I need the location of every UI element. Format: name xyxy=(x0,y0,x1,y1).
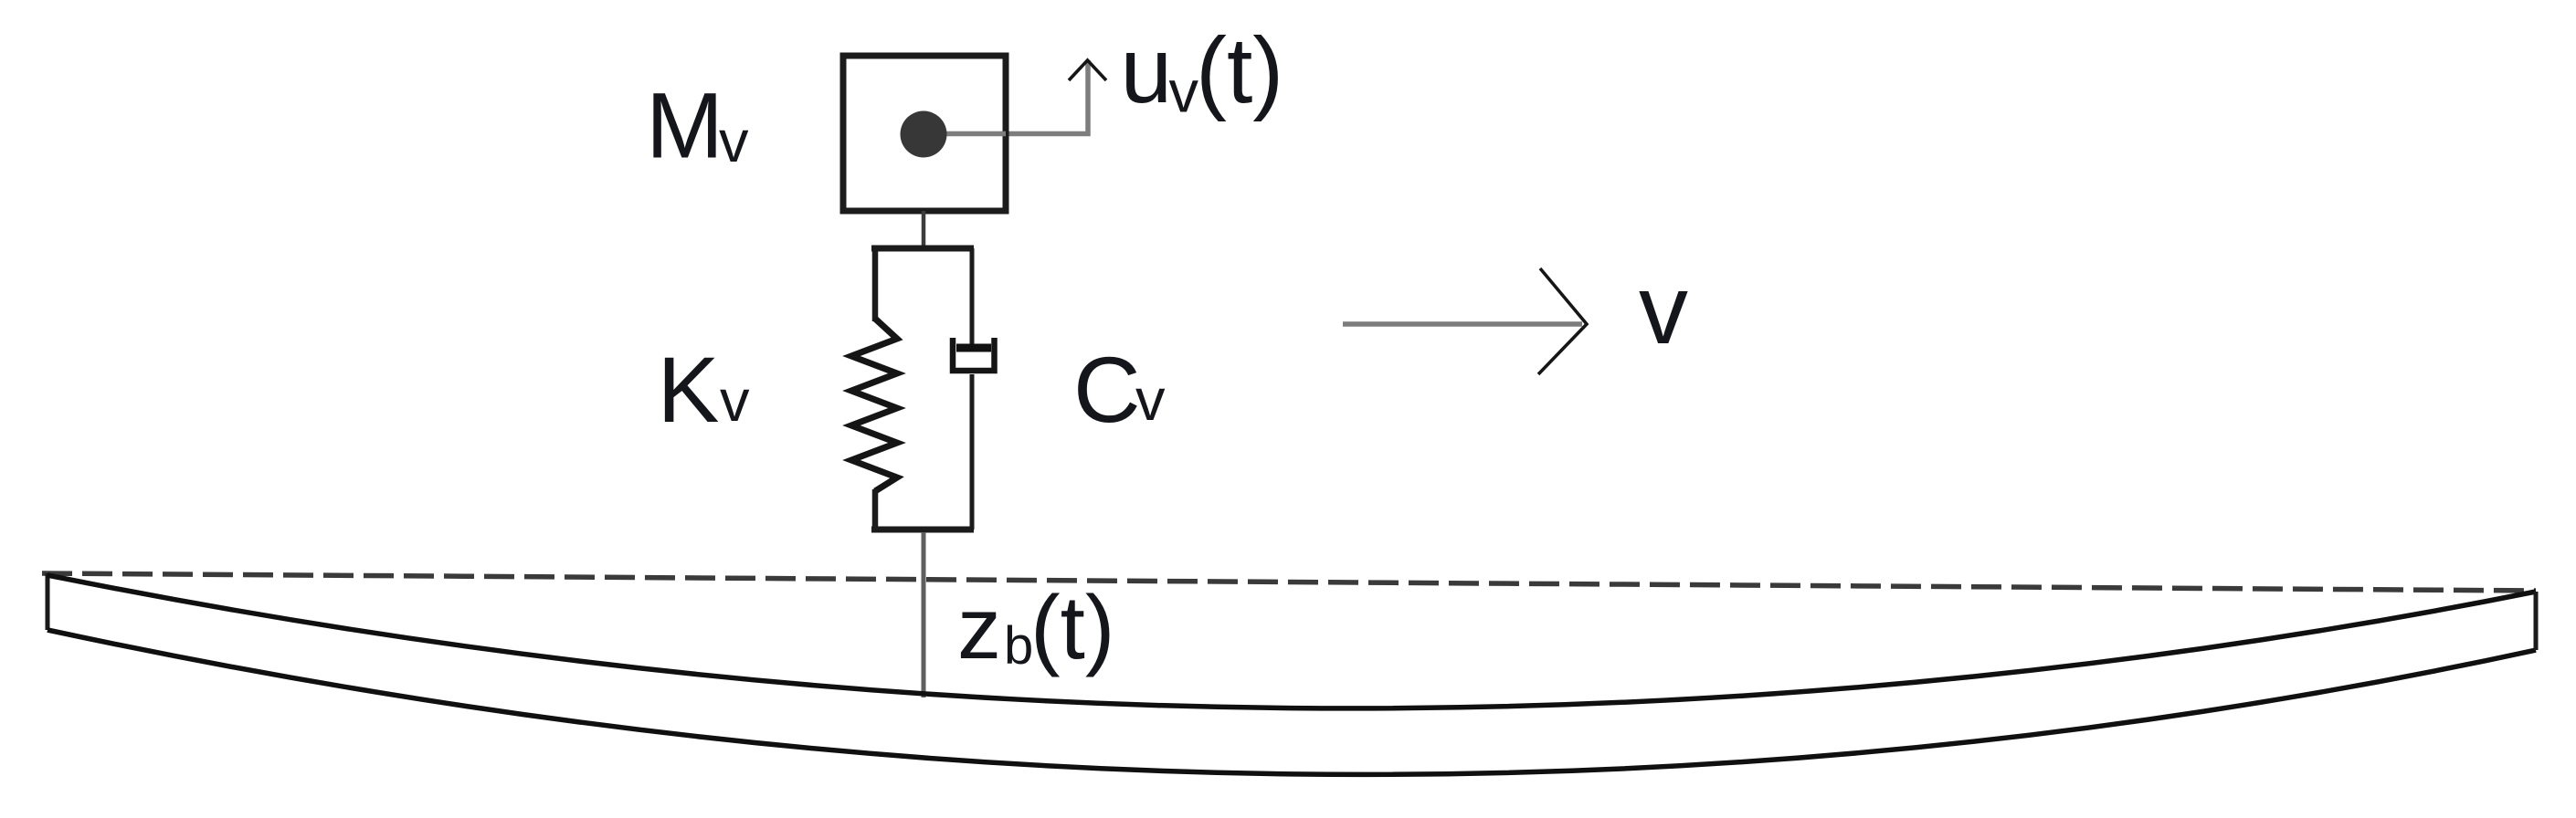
svg-text:M: M xyxy=(646,73,723,177)
svg-text:K: K xyxy=(658,338,720,442)
svg-text:v: v xyxy=(1169,58,1199,125)
svg-text:C: C xyxy=(1073,338,1141,442)
svg-text:z: z xyxy=(957,580,1001,677)
svg-text:v: v xyxy=(1135,366,1166,433)
svg-text:(t): (t) xyxy=(1196,18,1283,122)
svg-text:b: b xyxy=(1004,616,1033,676)
svg-text:v: v xyxy=(1639,254,1688,364)
svg-text:u: u xyxy=(1121,18,1173,122)
svg-text:v: v xyxy=(719,108,749,174)
svg-text:(t): (t) xyxy=(1030,577,1115,677)
svg-text:v: v xyxy=(720,367,750,434)
